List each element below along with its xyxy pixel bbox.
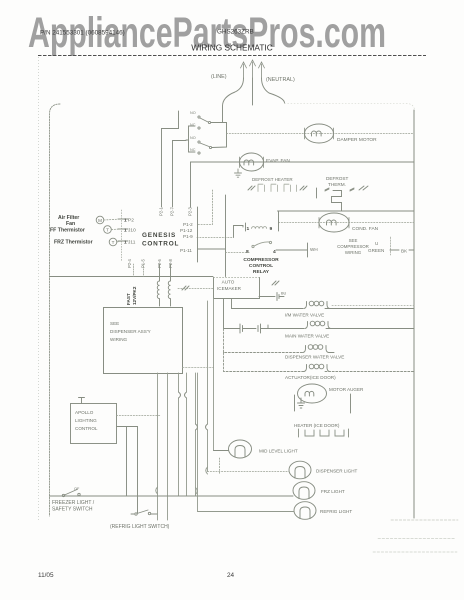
svg-text:THERM.: THERM. (328, 182, 346, 187)
svg-text:P1-5: P1-5 (141, 258, 146, 268)
compressor relay contacts 8-4 (246, 241, 276, 255)
svg-text:Fan: Fan (66, 221, 75, 227)
wire bundle dispenser down 4 (186, 373, 188, 496)
svg-text:DISPENSER ASS'Y: DISPENSER ASS'Y (110, 329, 151, 334)
footer dashed mark 3 (373, 551, 457, 553)
wire bundle dispenser down 3 (178, 373, 180, 496)
svg-text:BK: BK (401, 249, 408, 254)
wire to dispenser valve (224, 329, 304, 353)
svg-text:COND. FAN: COND. FAN (352, 226, 379, 232)
svg-text:AUTO: AUTO (222, 280, 235, 285)
lamp dispenser light (289, 461, 311, 479)
ice door heater element (299, 429, 349, 437)
page left border (38, 57, 40, 520)
wire genesis pin to dispenser w/ coil 2 (168, 264, 170, 306)
wire air filter fan to P2 (104, 219, 122, 220)
svg-text:COMPRESSOR: COMPRESSOR (337, 244, 369, 249)
svg-text:1 J10: 1 J10 (124, 228, 136, 234)
svg-text:11/05: 11/05 (38, 572, 54, 579)
compressor relay coil terminals 1-9 (246, 223, 279, 232)
svg-text:1 P2: 1 P2 (124, 218, 134, 224)
auger motor M4 (298, 384, 327, 403)
genesis pin 1 J11 (118, 240, 128, 242)
actuator ice door solenoid L4 (304, 364, 330, 371)
svg-text:(REFRIG LIGHT SWITCH): (REFRIG LIGHT SWITCH) (110, 524, 170, 530)
wire P1-9 to relay coil (197, 237, 233, 239)
footer dashed mark 2 (378, 538, 455, 540)
header rule (38, 55, 426, 57)
svg-text:LIGHTING: LIGHTING (75, 418, 97, 423)
wire actuator to bus (325, 371, 414, 373)
wire FRZ thermistor to J11 (117, 241, 122, 242)
svg-text:HEATER (ICE DOOR): HEATER (ICE DOOR) (294, 423, 340, 428)
svg-text:WH: WH (310, 247, 318, 252)
wire to refrig lamp (198, 373, 295, 512)
svg-text:RELAY: RELAY (253, 269, 270, 275)
svg-text:EVAP. FAN: EVAP. FAN (266, 158, 290, 164)
evap fan motor M2 (240, 153, 264, 171)
genesis pin 1 J10 (118, 228, 128, 230)
wire apollo right dotted (117, 415, 161, 417)
wire damper row (227, 133, 415, 135)
svg-text:BU: BU (281, 292, 287, 296)
svg-text:P1-11: P1-11 (180, 248, 192, 253)
svg-text:MOTOR AUGER: MOTOR AUGER (329, 387, 364, 392)
svg-text:P1-2: P1-2 (183, 222, 193, 227)
svg-text:DEFROST: DEFROST (326, 176, 349, 181)
evap fan ground (235, 169, 242, 177)
svg-text:NC: NC (190, 148, 196, 152)
wire icemaker feed marks (182, 286, 189, 290)
svg-text:I/M WATER VALVE: I/M WATER VALVE (285, 313, 324, 318)
svg-text:FREEZER LIGHT /: FREEZER LIGHT / (52, 500, 95, 506)
svg-text:T: T (112, 240, 115, 245)
svg-text:12V/PK2: 12V/PK2 (132, 286, 137, 305)
svg-text:OF: OF (74, 487, 80, 491)
svg-text:T: T (106, 228, 109, 233)
wire to actuator (224, 353, 305, 372)
wire ground prong stub (252, 78, 254, 105)
svg-text:SEE: SEE (110, 321, 119, 326)
wire bundle connector hook 3 (179, 392, 181, 398)
wire cond fan row (279, 222, 415, 224)
wire main valve to bus (326, 328, 414, 330)
FRZ thermistor RT2 (109, 238, 117, 246)
svg-text:M: M (98, 218, 102, 223)
svg-text:COMPRESSOR: COMPRESSOR (243, 257, 279, 263)
auger motor terminal bars (295, 394, 351, 413)
svg-text:FRZ LIGHT: FRZ LIGHT (321, 489, 345, 494)
freezer door switch 2 (190, 136, 212, 154)
bus end dashed mark (391, 519, 458, 521)
wire icemaker BU connector (259, 296, 275, 298)
svg-text:1 J11: 1 J11 (124, 240, 136, 246)
wire bundle dispenser down 2 (167, 373, 169, 520)
air filter fan motor M (96, 216, 104, 224)
svg-text:(NEUTRAL): (NEUTRAL) (266, 77, 295, 83)
wire FF thermistor to J10 (112, 228, 123, 231)
svg-text:P1-9: P1-9 (183, 234, 193, 239)
wire icemaker to IM valve (232, 299, 304, 309)
svg-text:P1-12: P1-12 (180, 228, 193, 233)
svg-text:GENESIS: GENESIS (142, 232, 176, 239)
svg-text:MID LEVEL LIGHT: MID LEVEL LIGHT (259, 449, 298, 454)
wire bundle dispenser down 5 (195, 373, 197, 496)
wire genesis pin to dispenser w/ coil (157, 264, 159, 306)
svg-text:WIRING: WIRING (110, 337, 128, 342)
defrost thermostat S3 (317, 186, 369, 211)
lamp freezer light (293, 482, 315, 500)
wire relay column (225, 195, 227, 277)
wire icemaker to main valve w/ connectors (224, 299, 241, 329)
svg-text:APOLLO: APOLLO (75, 410, 94, 415)
wire bundle dispenser down 6 (207, 301, 209, 472)
defrost heater element (248, 184, 307, 191)
compressor terminal bar green (390, 237, 392, 255)
wire apollo bottom drop (126, 427, 128, 497)
wire P1-11 right (198, 248, 226, 250)
wire evap fan row (191, 161, 415, 163)
dispenser assy box (104, 308, 183, 374)
compressor terminal bar WH (307, 243, 309, 257)
svg-text:FF Thermistor: FF Thermistor (50, 228, 85, 234)
svg-text:(LINE): (LINE) (211, 74, 227, 80)
wire switch commons to relay column (211, 123, 227, 148)
main water valve solenoid L2 (305, 321, 331, 328)
auger motor ground (298, 398, 305, 408)
svg-text:MAIN WATER VALVE: MAIN WATER VALVE (285, 334, 329, 339)
wire to dispenser lamp (208, 471, 290, 473)
svg-text:GREEN: GREEN (368, 248, 384, 253)
svg-text:ACTUATOR(ICE DOOR): ACTUATOR(ICE DOOR) (285, 375, 336, 380)
wire compressor to bus (390, 249, 414, 251)
genesis control left edge (121, 210, 123, 262)
svg-text:NO: NO (190, 111, 196, 115)
svg-text:P2-7: P2-7 (170, 206, 175, 216)
apollo lighting control box (71, 404, 117, 444)
wire switch1 NO to genesis (162, 111, 179, 207)
lamp refrig light (294, 502, 316, 520)
svg-text:REFRIG LIGHT: REFRIG LIGHT (320, 509, 352, 514)
wire main feed row to icemaker (50, 276, 214, 278)
wire long light feed (62, 495, 293, 497)
power cord prong NEUTRAL arrow (259, 62, 265, 78)
lamp mid level light (229, 440, 252, 458)
auto icemaker box (214, 277, 260, 279)
svg-text:DISPENSER LIGHT: DISPENSER LIGHT (316, 469, 358, 474)
svg-text:ICEMAKER: ICEMAKER (217, 286, 242, 291)
svg-text:1: 1 (247, 226, 250, 232)
svg-text:CONTROL: CONTROL (249, 263, 273, 269)
svg-text:P2-3: P2-3 (188, 206, 193, 216)
wire switch1 NC to genesis (173, 141, 187, 208)
power cord prong ground arrow (250, 60, 256, 78)
svg-text:P/N 241553301 (0608594146): P/N 241553301 (0608594146) (40, 30, 125, 37)
cond fan motor M3 (319, 213, 349, 232)
genesis pin 1 P2 (118, 218, 128, 220)
svg-text:U: U (375, 241, 378, 246)
wire relay contact 8 left (226, 252, 251, 254)
wire genesis bottom pin B (143, 264, 145, 277)
dispenser water valve solenoid L3 (303, 345, 334, 353)
svg-text:NO: NO (190, 136, 196, 140)
wire IM valve to bus (325, 308, 414, 310)
wire relay contact 4 to compressor (276, 249, 307, 251)
svg-text:SAFETY SWITCH: SAFETY SWITCH (52, 507, 93, 513)
svg-text:P2-1: P2-1 (159, 206, 164, 216)
svg-text:SEE: SEE (349, 238, 358, 243)
wire defrost return row (278, 210, 415, 212)
freezer light safety switch (50, 487, 81, 497)
wire apollo top stub (79, 398, 85, 404)
genesis control right edge (197, 207, 199, 262)
IM water valve solenoid L1 (304, 301, 330, 308)
FF thermistor RT1 (104, 226, 112, 234)
svg-text:P2-4: P2-4 (127, 258, 132, 268)
damper motor M1 (305, 124, 334, 143)
wire apollo right solid (117, 427, 138, 514)
svg-text:24: 24 (227, 572, 235, 579)
connector hooks on bundle at light feed (156, 487, 198, 495)
wire bundle dispenser down 7 (213, 299, 215, 451)
svg-text:CONTROL: CONTROL (142, 241, 179, 248)
svg-text:FAST: FAST (126, 293, 131, 305)
wire LINE prong down (223, 78, 244, 122)
wire dispenser box to bundle dashed (183, 367, 214, 369)
right bus wire (413, 110, 415, 518)
refrig light switch (131, 510, 157, 515)
switch bracket (186, 126, 195, 152)
wire genesis evap pin (190, 162, 192, 207)
svg-text:DISPENSER WATER VALVE: DISPENSER WATER VALVE (285, 355, 344, 360)
freezer door switch 1 NO contact (190, 111, 211, 129)
wire NEUTRAL prong to right bus (262, 78, 285, 103)
svg-text:WIRING: WIRING (345, 250, 362, 255)
power cord prong LINE arrow (241, 62, 247, 78)
svg-text:8: 8 (246, 249, 249, 255)
svg-text:FRZ Thermistor: FRZ Thermistor (54, 240, 93, 246)
svg-text:GHS263ZRB: GHS263ZRB (217, 29, 254, 36)
svg-text:DAMPER MOTOR: DAMPER MOTOR (337, 137, 377, 143)
wire bundle dispenser down 1 (157, 373, 159, 520)
left bus wire (50, 104, 61, 516)
svg-text:DEFROST HEATER: DEFROST HEATER (252, 177, 293, 182)
wire to mid level lamp (214, 450, 229, 452)
svg-text:9: 9 (270, 226, 273, 232)
wire genesis bottom pin A (133, 264, 135, 277)
svg-text:WIRING SCHEMATIC: WIRING SCHEMATIC (191, 43, 272, 53)
svg-text:CONTROL: CONTROL (75, 426, 98, 431)
